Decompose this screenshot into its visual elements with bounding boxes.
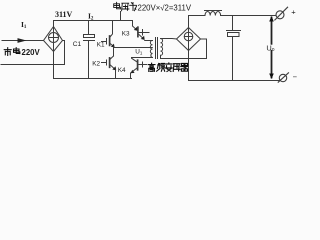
capacitor C1 bottom lead <box>88 41 90 79</box>
wire +311V top rail <box>54 20 133 22</box>
svg-text:K2: K2 <box>92 61 100 68</box>
wire output top run <box>189 15 206 17</box>
transistor K2 collector <box>110 56 114 59</box>
wire K2 emitter to bottom rail <box>115 70 117 79</box>
output terminal + (circle with slash) <box>276 11 284 19</box>
label 220V of mains <box>22 48 41 57</box>
label I2 <box>88 12 94 22</box>
transistor K2 body bar <box>109 58 111 67</box>
wire mains live input <box>2 40 44 42</box>
transformer secondary winding <box>161 39 163 59</box>
inductor filter coil <box>205 11 222 16</box>
transistor K3 emitter with arrow <box>138 34 144 39</box>
wire diamond1 top to rail <box>53 21 55 27</box>
label 高频变压器 (high-frequency transformer): fake glyphs <box>148 63 188 72</box>
label C1 <box>73 41 82 48</box>
wire K1/K2 midpoint vertical <box>113 47 115 56</box>
transformer core lines <box>156 38 158 59</box>
transformer primary winding <box>150 41 152 58</box>
wire diamond1 bottom to bottom rail <box>53 52 55 79</box>
wire node A to transformer primary top area <box>114 47 153 49</box>
wire bottom rail right (output ground) <box>189 80 280 82</box>
svg-text:K4: K4 <box>118 67 126 74</box>
bridge rectifier 2 internal circle <box>184 32 193 41</box>
label K2 <box>92 61 100 68</box>
transistor K4 emitter with arrow (down-left) <box>131 68 137 73</box>
transistor K1 body bar <box>109 36 111 45</box>
label U1 <box>135 49 143 56</box>
transistor K2 base stub and gate tick <box>102 60 107 65</box>
transistor K4 base stub right with tick <box>139 62 147 67</box>
svg-text:U1: U1 <box>135 49 143 56</box>
label K3 <box>122 31 130 38</box>
label Uo <box>266 43 274 53</box>
label 市电220V (mains 220V) : fake glyph 市 <box>4 48 20 56</box>
label K4 <box>118 67 126 74</box>
wire primary bottom to K4 collector <box>132 57 153 59</box>
output capacitor top lead <box>232 16 234 31</box>
bridge rectifier 2 plus cross <box>185 28 193 50</box>
transistor K3 base stub right with tick <box>139 30 149 36</box>
svg-text:311V: 311V <box>55 10 73 19</box>
wire K4 emitter to bottom rail <box>130 73 132 79</box>
wire mains return <box>1 64 65 66</box>
svg-text:+: + <box>291 7 296 16</box>
wire secondary top to diamond2 left vertex <box>161 38 177 41</box>
wire bottom rail left (inverter ground) <box>54 78 132 80</box>
transistor K3 collector diagonal with arrow <box>133 26 138 30</box>
label I1 <box>21 20 27 30</box>
capacitor C1 plates <box>84 35 95 38</box>
callout leader line from text to rail <box>120 12 122 21</box>
svg-text:220V×√2=311V: 220V×√2=311V <box>138 4 192 13</box>
label K1 <box>97 41 105 48</box>
transistor K1 emitter with arrow <box>110 43 114 47</box>
wire rail corner down to K3 <box>132 21 134 27</box>
output capacitor plates <box>227 30 241 32</box>
wire diamond2 top to output wire <box>188 16 190 28</box>
wire diamond1 right vertex to mains return <box>63 41 65 65</box>
wire K3 emitter to primary top <box>145 40 153 42</box>
label 电压为220V×√2=311V : fake glyphs 电压为 <box>114 2 137 11</box>
voltage arrow Uo (double headed) <box>271 18 273 78</box>
output terminal - (circle with slash) <box>279 74 286 81</box>
svg-text:220V: 220V <box>22 48 41 57</box>
svg-text:C1: C1 <box>73 41 82 48</box>
wire diamond2 bottom to right bottom rail <box>188 51 190 81</box>
bridge rectifier 1 diamond <box>44 27 63 52</box>
transistor K2 emitter with arrow <box>110 65 116 70</box>
label 220V×√2=311V <box>138 4 192 13</box>
bridge rectifier 2 diamond <box>177 28 201 51</box>
bridge rectifier 1 plus cross <box>50 27 58 51</box>
transistor K4 body bar <box>137 60 139 70</box>
wire inductor to + terminal <box>221 15 276 17</box>
capacitor C1 top lead <box>88 21 90 35</box>
label 311V <box>55 10 73 19</box>
fake glyph 电 <box>14 48 20 54</box>
transistor K3 body bar <box>137 27 139 36</box>
label - <box>293 73 298 82</box>
output capacitor bottom lead <box>232 37 234 81</box>
transistor K4 collector to primary-bottom wire <box>132 58 138 62</box>
svg-text:−: − <box>293 73 298 82</box>
transistor K1 base stub and gate tick <box>102 39 107 45</box>
transistor K1 collector lead from rail <box>110 21 113 38</box>
label + <box>291 7 296 16</box>
svg-text:K1: K1 <box>97 41 105 48</box>
arrowhead I1 current direction <box>18 38 27 43</box>
bridge rectifier 1 internal circle <box>49 33 59 43</box>
svg-text:K3: K3 <box>122 31 130 38</box>
wire secondary bottom / AC return to diamond2 right vertex <box>161 39 207 59</box>
